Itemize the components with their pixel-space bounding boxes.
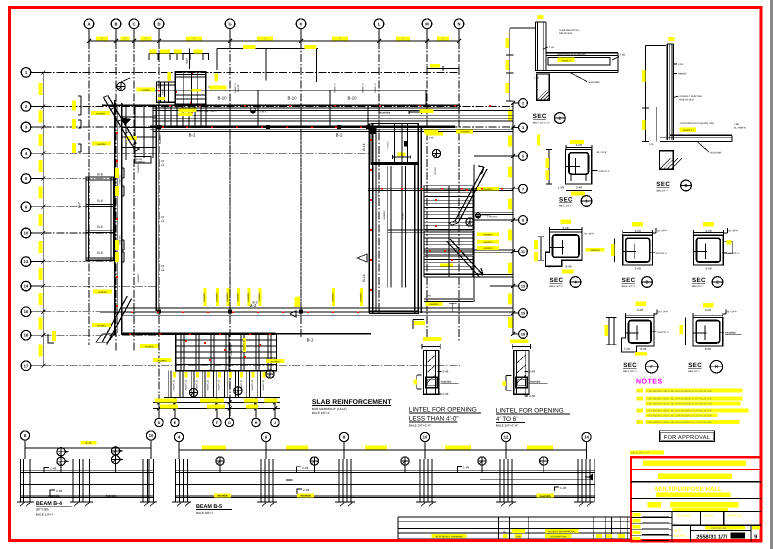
ramp edge line 1 [103,97,132,145]
wall section W1 soffit b [536,72,618,74]
dimension text [115,168,119,178]
svg-text:RBB OF BLB: RBB OF BLB [680,99,694,102]
grid bubble 8 (right) [519,216,528,225]
grid line 2 stem [31,105,44,107]
grid bubble N [454,19,464,29]
svg-text:B-8: B-8 [97,173,102,177]
dimension text (stair) [160,405,178,409]
grid line D [158,41,160,418]
stirrup marker circle [540,457,548,465]
svg-text:#L+8#-E: #L+8#-E [481,214,491,217]
svg-text:'-0": '-0" [192,37,196,41]
bracket dim mark [413,320,424,330]
svg-text:Asst#b.b: Asst#b.b [590,249,600,252]
dimension text (top) [121,36,130,40]
grid bubble 8 stem [513,219,519,221]
beam B4 mid line [20,483,153,485]
svg-text:FBR AB0BVL NBTE BE DFA BHOBRL-: FBR AB0BVL NBTE BE DFA BHOBRL-R LVT/RL19… [647,403,712,406]
slab note [140,344,159,348]
dimension text (left) [39,187,43,199]
stair flight box lower [424,256,473,277]
stair tread [424,262,473,264]
title rev divider [750,525,752,541]
svg-text:BL+1P-P: BL+1P-P [658,311,668,314]
grid line 15 [43,311,513,313]
stirrup stem [404,466,406,473]
svg-text:B-2: B-2 [189,133,196,138]
svg-text:Asst#b: Asst#b [387,141,390,149]
dimension text [72,119,76,129]
rib line pair [224,371,226,398]
notes line [646,413,718,417]
stair box rib line [270,334,272,371]
opening bracket mark [121,252,124,262]
lintel 2 post [514,350,529,394]
dimension tick [511,284,515,288]
dimension text (right) [508,294,512,305]
grid bubble E (bottom) [171,418,179,426]
beam band line [102,104,460,106]
svg-text:BBLE 3/4"=7: BBLE 3/4"=7 [559,205,573,208]
grid line M [426,41,428,341]
svg-text:Asst#b/c: Asst#b/c [247,292,250,302]
grid line K stem [300,29,302,41]
svg-text:Asst#b/c: Asst#b/c [226,292,229,302]
svg-text:BB8 4/4"-7: BB8 4/4"-7 [692,285,704,288]
beam divider tick [425,90,427,105]
svg-text:RIB OF BLB: RIB OF BLB [559,32,573,35]
grid line 5 [43,178,113,180]
svg-text:B-10: B-10 [287,96,297,101]
grid bubble 15 [21,307,31,317]
stair box rib line [228,334,230,371]
roof box vline [197,72,199,105]
grid line G interior [229,132,231,308]
roof box west vline [164,82,166,102]
svg-text:3-#8: 3-#8 [705,229,711,233]
dimension text [527,445,553,449]
dimension tick [511,101,515,105]
opening bracket mark [121,240,124,250]
svg-text:3-#8: 3-#8 [637,308,643,312]
wing yellow note [398,152,406,155]
svg-text:1-#8: 1-#8 [558,185,564,189]
stair box rib line [240,334,242,371]
wall section W1 beam box [548,58,610,66]
column block [299,310,303,314]
wing bottom thick line [369,310,418,312]
grid bubble 5 (right) [519,152,528,161]
dimension text (local) [150,50,157,54]
rib line pair [201,371,203,398]
ramp step tick [132,143,136,145]
svg-text:Asst#b/c: Asst#b/c [360,292,363,302]
svg-text:10: 10 [149,433,154,438]
beam B4 left end [20,459,22,502]
column section SF body [622,318,655,352]
dimension text (right) [508,230,512,241]
stair box rib line [210,334,212,371]
note 2-#8 elbow [296,467,301,472]
wall section W2 slab end [731,135,733,141]
beam B4 post feet [17,501,34,503]
stair box rib line [213,334,215,371]
svg-text:12: 12 [24,259,29,264]
wing line [424,274,513,276]
stair tread [424,237,473,239]
landing line a [388,229,474,231]
svg-text:1-: 1- [638,390,640,393]
ramp parallelogram [96,334,114,342]
svg-text:L-1: L-1 [160,159,165,166]
note 1-#8 elbow low [555,487,560,491]
dimension text [414,321,425,325]
section label circle [645,361,657,373]
dimension text (left) [39,318,43,330]
column section SH body [693,318,723,346]
stirrup marker circle [478,457,486,465]
grid bubble L [374,19,384,29]
lintel 1 title underline [409,412,481,414]
svg-text:Asst#b/c: Asst#b/c [137,163,140,173]
rib label [229,372,232,378]
plan title underline [312,405,391,407]
stair arrow tail [449,221,458,225]
slab note [297,297,300,307]
yellow tick [669,37,675,41]
svg-text:Asst#b.b: Asst#b.b [483,247,493,250]
grid bubble 3 (right) [519,123,528,132]
svg-text:5: 5 [522,155,524,159]
beam B5 bubble stems [178,442,180,459]
stair flight box upper [424,186,473,230]
stirrup marker circles [111,447,119,455]
revision table row text [432,534,467,538]
corner stair vline [125,106,127,161]
wall note [93,290,112,294]
svg-text:ASST#L.0: ASST#L.0 [728,252,740,255]
left wall inner line [121,103,123,335]
revision table left edge [397,517,399,539]
svg-text:Asst#b/c: Asst#b/c [203,292,206,302]
svg-text:BB8 4/4"-7: BB8 4/4"-7 [656,190,668,193]
svg-text:BALE 3/8'=7: BALE 3/8'=7 [196,511,213,515]
beam B4 column posts [23,459,25,502]
svg-text:Asst#L.C: Asst#L.C [162,85,165,95]
svg-text:3-#8: 3-#8 [635,229,641,233]
svg-text:BALE 2/4"=1'-8": BALE 2/4"=1'-8" [409,423,431,427]
stair tread [424,210,473,212]
column section S2 body [694,235,724,265]
grid bubble 13 stem [513,285,519,287]
section marker circle [234,387,242,395]
ramp bracket mark [48,334,54,343]
title number box top [690,529,751,531]
svg-text:Asst#C.01: Asst#C.01 [184,379,187,391]
grid bubble D stem (bottom) [158,398,160,419]
grid bubble 13 (right) [519,282,528,291]
beam line grid11 a [424,249,513,251]
stair box tread line [176,357,277,359]
stair tread [424,244,473,246]
svg-text:'-0": '-0" [401,37,405,41]
svg-text:3-#8: 3-#8 [529,370,535,374]
svg-text:BL.4 8'-8': BL.4 8'-8' [597,151,607,154]
beam B5 column posts [175,459,177,502]
dimension text (top) [396,36,410,40]
wing top box [371,124,418,165]
svg-text:1-#8: 1-#8 [463,466,469,470]
svg-text:12: 12 [504,435,509,440]
yellow tick [503,381,506,386]
rooms top cap line [86,179,114,181]
wing wall line pair c [401,166,403,288]
notes line [637,420,644,424]
stirrup marker circle [216,457,224,465]
grid line 6 [43,206,113,208]
stirrup stem [219,466,221,473]
svg-text:BL+3P-P: BL+3P-P [585,233,595,236]
wing box inner line [406,124,408,165]
svg-text:B-10: B-10 [347,96,357,101]
dimension text [632,222,643,226]
slab rebar rotated label [332,288,335,306]
bottom band tick [229,308,231,315]
wing stair bottom line b [424,301,473,303]
grid bubble G stem (bottom) [229,398,231,419]
title cell divider 1 [699,511,701,525]
svg-text:FBR AB0BVL NBTE BE DFA BHOBRL-: FBR AB0BVL NBTE BE DFA BHOBRL-R LVT/RL19… [647,410,712,413]
svg-text:3-#8: 3-#8 [635,266,641,270]
svg-text:'-0": '-0" [441,37,445,41]
landing line b [388,231,474,233]
wall B-14 line b [372,124,374,313]
note 1-#8 elbow [458,467,463,473]
column block [157,125,161,129]
beam band line [153,115,513,117]
svg-text:B-14: B-14 [362,274,366,281]
wall section W2 top cap [667,43,673,45]
svg-text:B-d8C: B-d8C [402,212,405,219]
dimension text [505,60,509,70]
revision table bottom line [398,538,630,540]
wing outer wall line [473,165,475,303]
dimension tick [511,311,515,315]
bottom band top line [122,307,513,309]
stair tread [424,199,473,201]
wing corner block [370,127,376,135]
beam B4 top line [20,472,153,474]
rib label [185,372,188,378]
svg-text:#8BB#E: #8BB#E [678,73,687,76]
rooms inner left line [88,177,90,260]
bottom band line [122,314,513,316]
svg-text:Asst#C.01: Asst#C.01 [218,379,221,391]
revision table cell [596,534,602,538]
svg-text:REFERENCE DRAWING: REFERENCE DRAWING [436,536,463,539]
svg-text:2-#8: 2-#8 [56,489,62,493]
beam stirrup line [200,105,202,127]
svg-text:L-1: L-1 [160,264,165,271]
svg-text:A.B.#8: A.B.#8 [237,84,240,92]
grid bubble G (bottom) [225,418,233,426]
rebar note [477,233,499,237]
stair box tread line [176,351,277,353]
grid bubble 14 [21,281,31,291]
dimension text (local) [194,50,203,54]
svg-text:BL+3P-P: BL+3P-P [729,230,739,233]
grid bubble 7 (right) [519,184,528,193]
corner wedge [122,118,132,126]
column SH top dim [693,314,723,316]
slab rebar rotated label [216,288,219,306]
stair box rotated label [243,338,246,352]
dimension text (left) [39,241,43,253]
title block row4 bar a [648,502,662,508]
stair dimension line 2 [153,408,280,410]
lintel arrow mark [357,254,367,262]
wing wall east b [417,165,419,314]
grid line 15 stem [31,311,44,313]
svg-text:Asst#b.b: Asst#b.b [483,188,493,191]
svg-text:FOR APPROVAL: FOR APPROVAL [664,435,710,441]
roof box vline [191,72,193,105]
stair box rib line [255,334,257,371]
svg-text:14: 14 [584,435,589,440]
bottom band tick [300,308,302,315]
dimension text [604,325,608,336]
wing line [424,276,513,278]
svg-text:BCB NBD: BCB NBD [674,535,686,538]
roof box line [175,76,205,78]
note Asst yellow 2 [536,494,554,498]
grid line 12 stem [31,261,44,263]
beam B5 post feet [172,501,191,503]
dimension text [571,192,585,196]
column block [337,125,341,129]
grid bubble 2 stem [513,102,519,104]
dim stub line 5 [474,155,513,157]
roof box west vline [160,82,162,102]
roof box vline [183,72,185,105]
beam junction tick [257,105,259,127]
stair tread [424,265,473,267]
wall section W2 slab c [660,141,732,143]
dimension text [505,38,509,48]
grid bubble 12 [21,257,31,267]
slab rebar rotated label [203,288,206,306]
beam B5 top line [176,472,596,474]
svg-text:MULTIPURPOSE HALL: MULTIPURPOSE HALL [655,486,722,493]
beam band top edge [153,89,426,91]
stair box tread line [176,339,277,341]
roof box main [175,72,205,105]
rib label [196,372,199,378]
beam B5 mid line [286,479,293,481]
beam line grid7 a [368,187,513,189]
svg-text:'-0": '-0" [263,37,267,41]
beam B5 low line 2 [176,494,596,496]
svg-text:K: K [299,21,302,26]
title divider date [689,525,691,541]
room divider 2b [86,232,114,234]
grid bubble 15 stem [513,312,519,314]
stirrup stem [543,466,545,473]
dim tick stem [182,54,184,61]
wing bottom line [369,313,419,315]
svg-text:B-9: B-9 [97,199,102,203]
section marker circle [189,388,197,396]
wall section W2 pier hatch [659,158,681,169]
revision table line 2 [398,520,630,522]
local dimension line [149,53,209,55]
grid bubble 16 (right) [519,330,528,339]
revision table dividers [498,517,500,539]
svg-text:BALE 2/4"=1'-8": BALE 2/4"=1'-8" [496,423,518,427]
svg-text:Asst#L.C: Asst#L.C [362,83,365,93]
svg-text:2-#8: 2-#8 [303,488,309,492]
svg-text:CAB: CAB [516,536,521,539]
svg-text:1-#8: 1-#8 [649,143,654,146]
beam junction tick [300,105,302,127]
beam band line [153,110,513,112]
stair tread [424,207,473,209]
rib label [251,372,254,378]
section label circle [712,277,723,288]
yellow tick [538,15,544,19]
dim tick stem [148,54,150,61]
notes line [637,389,644,393]
svg-text:BALE 1/8"=1'-8": BALE 1/8"=1'-8" [631,452,650,455]
revision table line 3 [398,528,630,530]
top wall thick line [150,126,455,129]
note 1-#8 elbow [44,468,49,473]
revision table cell [515,534,522,538]
notes line [637,408,644,412]
svg-text:Asst#b/c: Asst#b/c [158,360,168,363]
dimension text [430,64,440,68]
svg-text:7: 7 [522,187,524,191]
for approval box inner [661,432,713,440]
title mini table rows [631,516,672,518]
svg-text:3-#8: 3-#8 [565,264,571,268]
rib label [218,372,221,378]
svg-text:ASST#L.0: ASST#L.0 [656,252,668,255]
svg-text:3: 3 [522,126,524,130]
svg-text:B#123: B#123 [434,167,437,175]
rib label [173,372,176,378]
svg-text:FBR AB0BVL NBTE BE DFA BHOBRL-: FBR AB0BVL NBTE BE DFA BHOBRL-R LVT/RL19… [647,390,712,393]
slab note [537,135,540,146]
dim tick stem [157,54,159,61]
svg-text:2: 2 [522,102,524,106]
rib label [240,372,243,378]
beam divider tick [257,90,259,105]
lintel 1 dim text [423,337,442,341]
stair tread [424,258,473,260]
grid bubble 16 stem [513,333,519,335]
grid line K [300,41,302,338]
grid line 14 [43,285,158,287]
wing wall east a [414,165,416,314]
column S4 left dim [540,237,542,261]
beam B4 low line 2 [20,494,153,496]
column SB top dim [623,232,653,234]
grid bubble 5 stem [513,155,519,157]
beam B5 bubble 6 [261,432,270,441]
column S1 left dim [548,150,550,185]
dimension text [703,303,714,307]
